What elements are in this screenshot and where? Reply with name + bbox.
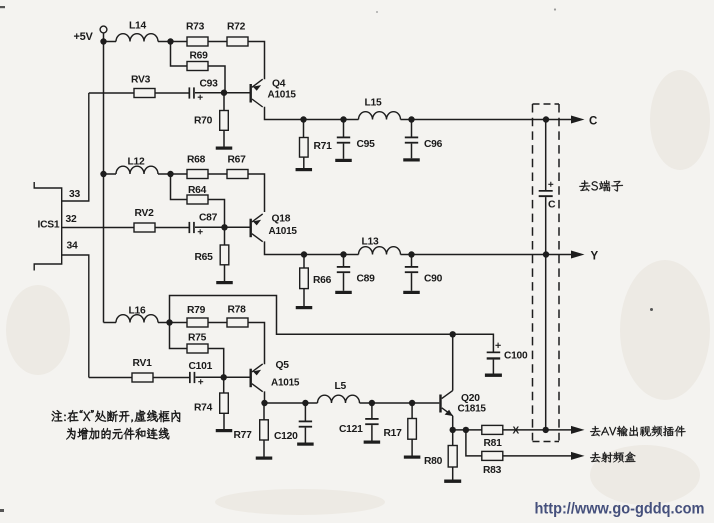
wire to C95 xyxy=(343,120,345,137)
svg-text:R66: R66 xyxy=(313,275,332,286)
svg-text:A1015: A1015 xyxy=(271,378,300,389)
resistor R79 xyxy=(187,318,208,327)
wire L12 to R68 xyxy=(158,173,187,175)
inductor L16 xyxy=(116,315,158,323)
svg-text:34: 34 xyxy=(67,241,78,252)
wire to R17 xyxy=(411,403,413,419)
node Q20 collector/C100 line xyxy=(450,331,456,337)
node C121 xyxy=(369,400,375,406)
wire Q18 collector to Y row xyxy=(265,241,359,254)
wire cap C down to AV row xyxy=(545,197,547,430)
svg-text:C93: C93 xyxy=(200,79,219,90)
wire L15 to C output xyxy=(401,119,572,121)
wire C node down to cap C xyxy=(545,120,547,191)
resistor R68 xyxy=(187,170,208,179)
svg-text:Q4: Q4 xyxy=(272,79,286,90)
wire C100 to ground xyxy=(492,360,494,374)
svg-text:Y: Y xyxy=(591,251,599,263)
node AV/S-box line xyxy=(543,427,549,433)
svg-text:R17: R17 xyxy=(384,428,403,439)
resistor R83 xyxy=(482,451,503,460)
wire to C96 xyxy=(411,120,413,137)
wire rail to L16 xyxy=(104,322,117,324)
svg-text:R83: R83 xyxy=(483,465,502,476)
wire R65 to ground xyxy=(224,265,226,281)
wire C120 to ground xyxy=(304,428,306,443)
wire Q4 collector to C row xyxy=(265,107,359,120)
wire R72 to Q4 emitter xyxy=(248,42,265,80)
node C95 xyxy=(340,116,346,122)
resistor R78 xyxy=(227,318,248,327)
node Q4 base xyxy=(221,90,227,96)
svg-text:33: 33 xyxy=(69,189,80,200)
node R71 xyxy=(300,116,306,122)
wire to L14 xyxy=(107,41,117,43)
wire to L12 xyxy=(107,173,117,175)
resistor R77 xyxy=(260,420,269,440)
node L16/R79/R75/feed xyxy=(166,319,172,325)
pin 33 xyxy=(62,93,89,201)
wire C95 to ground xyxy=(343,144,345,159)
node R83 branch xyxy=(463,427,469,433)
wire C121 to ground xyxy=(371,425,373,440)
wire node to R69 xyxy=(171,44,188,66)
wire base node to R74 xyxy=(223,380,225,393)
svg-text:http://www.go-gddq.com: http://www.go-gddq.com xyxy=(535,501,705,518)
ground C96 xyxy=(403,158,420,161)
resistor R70 xyxy=(220,111,229,131)
svg-text:R74: R74 xyxy=(194,403,213,414)
wire R74 to ground xyxy=(223,413,225,429)
inductor L12 xyxy=(116,166,158,174)
capacitor C in dashed box xyxy=(539,182,554,197)
ground C89 xyxy=(335,291,352,294)
svg-text:Q5: Q5 xyxy=(276,360,290,371)
wire C96 to ground xyxy=(411,144,413,159)
wire to R77 xyxy=(263,405,265,420)
svg-text:C101: C101 xyxy=(189,361,213,372)
capacitor C93 xyxy=(189,87,203,99)
resistor RV3 xyxy=(134,89,155,98)
ground R65 xyxy=(216,281,233,284)
wire L14 to R73 xyxy=(158,41,187,43)
svg-text:R78: R78 xyxy=(228,305,247,316)
dashed box left side xyxy=(532,104,534,441)
resistor R74 xyxy=(220,393,229,413)
ground R74 xyxy=(216,429,233,432)
svg-text:L16: L16 xyxy=(129,306,147,317)
wire node to R64 xyxy=(171,177,188,200)
wire pin34 to RV1 xyxy=(89,377,132,379)
dashed box top xyxy=(533,103,560,105)
capacitor C121 xyxy=(365,418,378,425)
wire to C120 xyxy=(304,403,306,421)
ground R77 xyxy=(256,457,273,460)
wire base node to R70 xyxy=(223,95,225,111)
svg-text:R67: R67 xyxy=(228,155,247,166)
ground R70 xyxy=(216,147,233,150)
arrow AV output xyxy=(571,426,585,434)
svg-text:A1015: A1015 xyxy=(269,226,298,237)
svg-text:C: C xyxy=(589,116,597,128)
ground R66 xyxy=(296,306,313,309)
wire R66 to ground xyxy=(303,289,305,306)
wire to C90 xyxy=(411,255,413,267)
wire C93 to Q4 base xyxy=(195,92,250,94)
wire to R81 xyxy=(453,429,482,431)
svg-text:R79: R79 xyxy=(187,305,206,316)
wire R80 to ground xyxy=(452,467,454,480)
svg-text:L5: L5 xyxy=(335,381,347,392)
resistor RV2 xyxy=(134,223,155,232)
dashed box right side xyxy=(558,104,560,441)
svg-text:C1815: C1815 xyxy=(458,404,487,415)
svg-text:R64: R64 xyxy=(188,185,207,196)
resistor R75 xyxy=(187,344,208,353)
capacitor C87 xyxy=(189,222,203,234)
svg-text:X: X xyxy=(513,426,520,437)
capacitor C100 xyxy=(487,343,501,360)
inductor L13 xyxy=(359,247,401,255)
node rail/L12 xyxy=(100,171,106,177)
wire pin32 to RV2 xyxy=(62,227,134,229)
svg-text:A1015: A1015 xyxy=(268,90,297,101)
transistor Q20 C1815 xyxy=(439,391,453,416)
svg-text:R73: R73 xyxy=(186,22,205,33)
resistor R73 xyxy=(187,37,208,46)
wire R81 to AV arrow xyxy=(503,429,572,431)
wire pin33 riser to RV3 xyxy=(89,92,134,94)
inductor L5 xyxy=(318,395,360,403)
svg-text:L14: L14 xyxy=(129,21,147,32)
node R66 xyxy=(301,251,307,257)
dashed box bottom xyxy=(533,441,560,443)
transistor Q18 A1015 xyxy=(250,214,263,242)
svg-text:R77: R77 xyxy=(234,430,253,441)
capacitor C90 xyxy=(405,266,418,273)
wire L5 to Q20 base xyxy=(360,402,440,404)
svg-text:Q18: Q18 xyxy=(272,214,291,225)
wire to R66 xyxy=(303,255,305,269)
node R17 xyxy=(409,400,415,406)
node L14/R73/R69 xyxy=(167,38,173,44)
svg-text:L13: L13 xyxy=(362,237,380,248)
svg-text:R68: R68 xyxy=(187,155,206,166)
transistor Q4 A1015 xyxy=(250,79,263,107)
svg-text:ICS1: ICS1 xyxy=(38,220,60,231)
node Q18 base xyxy=(221,224,227,230)
svg-text:R80: R80 xyxy=(424,456,443,467)
svg-text:C120: C120 xyxy=(274,431,298,442)
wire RV2 to C87 xyxy=(155,227,189,229)
wire RV3 to C93 xyxy=(155,92,189,94)
wire RV1 to C101 xyxy=(153,377,189,379)
resistor R81 xyxy=(482,425,503,434)
wire R64 to Q18 base node xyxy=(208,200,225,228)
wire R68 to R67 xyxy=(208,173,227,175)
svg-text:Q20: Q20 xyxy=(461,393,480,404)
capacitor C95 xyxy=(337,137,350,144)
ground C90 xyxy=(403,291,420,294)
wire +5V rail down xyxy=(103,33,105,323)
capacitor C89 xyxy=(337,266,350,273)
svg-text:R72: R72 xyxy=(227,22,246,33)
wire branch to R83 xyxy=(466,432,482,456)
IC ICS1 outline xyxy=(34,182,62,271)
resistor R67 xyxy=(227,170,248,179)
wire R69 to Q4 base node xyxy=(208,66,225,93)
ground R80 xyxy=(444,480,461,483)
wire to C121 xyxy=(371,403,373,418)
ground C95 xyxy=(335,159,352,162)
resistor R71 xyxy=(300,138,309,158)
wire R78 to Q5 emitter xyxy=(248,323,265,365)
wire feed to C100/Q20 xyxy=(170,296,494,352)
node L12/R68/R64 xyxy=(167,171,173,177)
node C120 xyxy=(302,400,308,406)
wire C87 to Q18 base xyxy=(195,226,250,228)
wire R79 to R78 xyxy=(208,322,227,324)
note line 1 xyxy=(52,410,181,422)
wire R70 to ground xyxy=(223,130,225,146)
resistor R64 xyxy=(187,195,208,204)
arrow C output xyxy=(571,116,585,124)
text 去AV输出视频插件 xyxy=(590,426,686,437)
text 去射频盒 xyxy=(590,452,635,463)
ground C120 xyxy=(297,443,314,446)
svg-text:C100: C100 xyxy=(504,351,528,362)
node +5V junction xyxy=(100,38,106,44)
node C90 xyxy=(408,251,414,257)
svg-text:C87: C87 xyxy=(199,213,218,224)
svg-text:+5V: +5V xyxy=(74,31,94,43)
node Y line to S-box xyxy=(543,251,549,257)
resistor R17 xyxy=(408,419,417,440)
wire base node to R65 xyxy=(224,230,226,245)
wire R71 to ground xyxy=(303,157,305,168)
ground C100 xyxy=(485,374,502,377)
capacitor C96 xyxy=(405,137,418,144)
wire R67 to Q18 emitter xyxy=(248,174,265,212)
inductor L14 xyxy=(116,34,158,42)
svg-text:C96: C96 xyxy=(424,139,443,150)
resistor R72 xyxy=(227,37,248,46)
node Q5 base xyxy=(221,374,227,380)
svg-text:R75: R75 xyxy=(188,333,207,344)
power +5V terminal xyxy=(100,26,107,33)
arrow Y output xyxy=(571,251,585,259)
arrow RF output xyxy=(571,452,585,460)
wire C101 to Q5 base xyxy=(196,376,250,378)
svg-text:RV1: RV1 xyxy=(133,358,153,369)
svg-text:R69: R69 xyxy=(190,51,209,62)
resistor RV1 xyxy=(132,373,153,382)
node C89 xyxy=(340,251,346,257)
wire R77 to ground xyxy=(263,440,265,457)
svg-text:R81: R81 xyxy=(484,438,503,449)
note line 2 xyxy=(66,428,169,440)
ground R71 xyxy=(296,168,313,171)
svg-text:RV2: RV2 xyxy=(135,208,155,219)
svg-text:L15: L15 xyxy=(365,98,383,109)
resistor R66 xyxy=(300,268,309,289)
inductor L15 xyxy=(359,112,401,120)
wire Q20 emitter down xyxy=(452,416,454,430)
svg-text:C89: C89 xyxy=(357,274,376,285)
resistor R65 xyxy=(220,245,229,265)
svg-text:32: 32 xyxy=(66,214,77,225)
wire Q20 collector up xyxy=(452,334,454,390)
transistor Q5 A1015 xyxy=(250,364,263,392)
svg-text:C121: C121 xyxy=(339,424,363,435)
capacitor C120 xyxy=(299,421,312,428)
capacitor C101 xyxy=(189,372,203,384)
svg-text:C95: C95 xyxy=(357,139,376,150)
svg-text:R70: R70 xyxy=(194,116,213,127)
node Q5 collector/R77 xyxy=(261,400,267,406)
text 去S端子 xyxy=(579,180,623,191)
wire L13 to Y output xyxy=(401,254,572,256)
wire R83 to RF arrow xyxy=(503,455,572,457)
wire to C89 xyxy=(343,255,345,267)
pin 34 xyxy=(62,255,89,378)
svg-text:C90: C90 xyxy=(424,274,443,285)
node C line to S-box xyxy=(543,116,549,122)
wire C90 to ground xyxy=(411,273,413,291)
wire Q5 collector to out row xyxy=(265,391,318,403)
ground R17 xyxy=(404,456,421,459)
svg-text:R65: R65 xyxy=(195,252,214,263)
svg-text:C: C xyxy=(548,199,556,211)
wire to R71 xyxy=(303,120,305,138)
wire R75 to Q5 base node xyxy=(208,349,224,378)
wire C89 to ground xyxy=(343,273,345,291)
resistor R69 xyxy=(187,62,208,71)
resistor R80 xyxy=(448,446,457,468)
wire L16 to R79 xyxy=(158,322,187,324)
svg-text:L12: L12 xyxy=(128,157,146,168)
wire R17 to ground xyxy=(411,439,413,455)
wire to R80 xyxy=(452,433,454,446)
ground C121 xyxy=(364,441,381,444)
node C96 xyxy=(408,116,414,122)
node Q20 emitter/AV row xyxy=(450,427,456,433)
svg-text:R71: R71 xyxy=(314,141,333,152)
svg-text:RV3: RV3 xyxy=(131,75,151,86)
wire node to R75 xyxy=(170,325,188,349)
wire R73 to R72 xyxy=(208,41,227,43)
